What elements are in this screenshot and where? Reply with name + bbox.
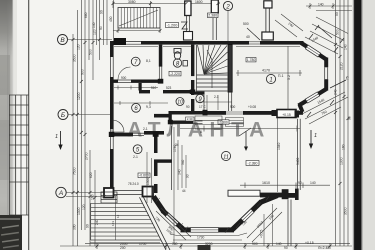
svg-text:2.300: 2.300 — [219, 120, 228, 124]
wall room5 to wing horizontal — [154, 159, 172, 162]
svg-text:1: 1 — [55, 134, 58, 140]
svg-text:340: 340 — [181, 159, 185, 165]
scanned left edge gray strip — [0, 0, 13, 250]
door lines room7/room6 — [118, 80, 131, 83]
parapet diagonal left window box — [165, 213, 178, 226]
svg-text:1610: 1610 — [262, 181, 270, 185]
room1 dim line horizontal — [236, 70, 302, 76]
svg-text:450: 450 — [109, 16, 113, 22]
svg-text:900: 900 — [230, 105, 236, 109]
corridor bottom wall — [172, 121, 194, 124]
door threshold blob to veranda — [277, 110, 296, 118]
label -1.200 — [166, 23, 179, 28]
top wall inner face lines — [114, 45, 300, 47]
door arc room7 — [118, 67, 131, 80]
svg-text:3500: 3500 — [73, 54, 77, 62]
svg-text:1600: 1600 — [195, 0, 203, 4]
svg-text:5.2: 5.2 — [287, 75, 291, 80]
svg-text:2.380: 2.380 — [208, 14, 217, 18]
svg-text:2-1: 2-1 — [143, 127, 148, 131]
corridor top wall — [169, 111, 205, 115]
room circle 10 — [176, 98, 184, 106]
svg-text:140: 140 — [276, 242, 282, 246]
wing south wall end block — [282, 189, 289, 199]
bay corner to bottom wall — [300, 105, 303, 113]
axis circle 2 top — [223, 1, 232, 44]
junction piers — [109, 79, 208, 137]
room circle 5 — [133, 145, 142, 159]
room6 dim hline — [114, 101, 168, 105]
porch column right — [143, 187, 154, 197]
svg-text:680: 680 — [84, 12, 88, 18]
svg-text:+0.15: +0.15 — [282, 113, 291, 117]
svg-text:17 C: 17 C — [199, 105, 206, 109]
right margin light strip — [361, 0, 375, 250]
tick slashes on dimension chains — [72, 2, 350, 248]
room circle 11 — [221, 151, 230, 160]
wall room6/room5 horizontal — [110, 131, 164, 136]
svg-text:12: 12 — [116, 214, 120, 218]
porch step block — [101, 192, 117, 203]
svg-text:900: 900 — [81, 69, 85, 75]
corridor door lines — [193, 121, 202, 123]
svg-text:10: 10 — [177, 100, 183, 106]
svg-text:160: 160 — [342, 144, 346, 150]
top dim texts — [128, 0, 250, 39]
corridor left wall stub — [154, 114, 170, 118]
svg-text:140: 140 — [92, 22, 96, 28]
sheet border vertical line left — [28, 0, 30, 250]
porch dim hline — [66, 195, 106, 198]
parapet right stub to wall — [260, 196, 278, 203]
veranda edge double line right — [297, 119, 300, 190]
window in upper diagonal — [305, 45, 320, 57]
svg-text:3500: 3500 — [344, 207, 348, 215]
stair winders fan — [198, 45, 228, 74]
svg-text:1730: 1730 — [197, 236, 205, 240]
stair stringer dark — [228, 45, 232, 93]
svg-text:120: 120 — [82, 204, 86, 210]
svg-text:1200: 1200 — [77, 92, 81, 100]
section mark 1 right — [309, 130, 317, 149]
wall bottom of room 1 — [204, 111, 303, 115]
svg-text:300: 300 — [73, 224, 77, 230]
door sill line room1 exit — [226, 112, 243, 114]
svg-text:90: 90 — [86, 224, 90, 228]
extra top-left band texts — [77, 10, 113, 50]
small marks top right of stairs — [247, 26, 346, 88]
svg-text:120: 120 — [93, 29, 97, 35]
parapet hatch marks — [156, 197, 269, 234]
svg-text:75: 75 — [346, 76, 350, 80]
porch column left — [104, 188, 114, 198]
toilet fixture — [174, 49, 181, 60]
interior small texts — [121, 76, 256, 193]
svg-text:П-1: П-1 — [278, 74, 284, 78]
room circle 9 — [196, 94, 204, 103]
wing south wall window part — [228, 190, 260, 196]
stair dimension below — [113, 28, 162, 33]
section Z mark top — [181, 22, 188, 29]
svg-text:1300: 1300 — [340, 157, 344, 165]
svg-text:140: 140 — [318, 3, 324, 7]
room circle 8 wc — [173, 59, 181, 68]
right heavy black fold bar — [354, 0, 362, 250]
svg-text:140: 140 — [344, 44, 348, 50]
wing south wall dark part — [260, 193, 282, 198]
room circle 7 — [131, 57, 151, 66]
bottom dim texts — [120, 241, 329, 250]
svg-text:Θ=2.48: Θ=2.48 — [318, 246, 329, 250]
svg-text:9,3: 9,3 — [146, 105, 151, 109]
wall room5 right vertical — [154, 136, 158, 193]
svg-text:90: 90 — [186, 105, 190, 109]
left dimension chain verticals — [73, 0, 114, 246]
label 2.380 top — [208, 13, 219, 18]
window in top wall — [116, 42, 141, 45]
veranda lower double line — [288, 200, 291, 247]
parapet left upper stub — [154, 197, 165, 213]
svg-text:2: 2 — [225, 4, 230, 10]
svg-text:44: 44 — [182, 189, 186, 193]
svg-text:-2.220: -2.220 — [170, 72, 180, 76]
svg-text:1300: 1300 — [77, 207, 81, 215]
wing dim line — [180, 126, 300, 132]
stair left edge line — [196, 45, 198, 92]
bay right wall — [324, 58, 328, 91]
svg-text:1: 1 — [314, 133, 317, 139]
svg-text:1: 1 — [269, 77, 272, 83]
diag dims lower left terrace — [156, 208, 282, 242]
room circle 6 — [132, 103, 151, 112]
svg-text:340: 340 — [178, 169, 182, 175]
stringer continuation thin — [229, 92, 232, 111]
door line room6/room5 — [133, 133, 144, 135]
dark stamp bar bottom-left — [0, 215, 22, 250]
stair straight treads — [197, 75, 228, 91]
svg-text:500: 500 — [243, 22, 249, 26]
svg-text:78 24.0: 78 24.0 — [128, 182, 139, 186]
svg-text:620: 620 — [89, 172, 93, 178]
stair up arrow line — [207, 50, 212, 88]
axis circle A — [56, 187, 106, 197]
svg-text:А: А — [58, 190, 63, 197]
slash ticks on diagonals — [307, 25, 344, 117]
svg-text:1.780: 1.780 — [247, 58, 256, 62]
stair flight top-left — [118, 8, 160, 29]
wing south wall corner vertical — [295, 189, 299, 201]
steps down to wing — [226, 118, 244, 127]
door gap lines room7/wc — [159, 67, 162, 80]
label -2.380 lower right — [246, 161, 259, 166]
window in left wall lower — [111, 129, 114, 149]
wall between room7 and wc — [159, 45, 163, 67]
parapet diagonal left dark band — [163, 211, 184, 230]
leader mark near label — [239, 128, 251, 151]
wing left dim vline — [174, 127, 178, 245]
svg-text:500: 500 — [336, 29, 340, 35]
window in bay right wall — [325, 67, 328, 79]
door swing arc room6 — [112, 120, 124, 132]
hall boundary line — [203, 95, 205, 111]
top dimension line — [113, 1, 220, 8]
svg-text:90: 90 — [100, 10, 104, 14]
upper right rotated texts — [287, 22, 349, 150]
parapet rotated dim texts — [154, 216, 247, 240]
window in lower diagonal — [305, 92, 319, 103]
room5 rotated texts — [181, 159, 190, 178]
diag dim texts upper right — [317, 98, 328, 116]
axis circle B — [58, 110, 112, 120]
wall left exterior — [110, 41, 114, 191]
room1 vertical dim — [287, 46, 289, 110]
left chain texts — [73, 26, 103, 225]
wall wc/room6 horizontal — [139, 90, 192, 93]
upper right extra diagonals — [275, 14, 348, 41]
svg-text:900: 900 — [121, 76, 127, 80]
steps rotated tick texts — [111, 214, 120, 226]
top right corner texts — [318, 3, 339, 17]
svg-text:АТЛАНТА: АТЛАНТА — [127, 119, 271, 142]
sink fixture — [183, 61, 188, 67]
svg-text:4170: 4170 — [262, 69, 270, 73]
svg-text:120: 120 — [77, 44, 81, 50]
terrace step diagonal edge — [140, 197, 171, 250]
bay diagonal wall upper-right — [301, 43, 326, 59]
corridor left wall vertical — [169, 111, 172, 124]
svg-text:8,1: 8,1 — [146, 59, 151, 63]
svg-text:-2.380: -2.380 — [248, 162, 258, 166]
wall top exterior — [110, 41, 304, 45]
svg-text:2120: 2120 — [340, 62, 344, 70]
stair arrow diagonal — [119, 10, 158, 26]
left title table vertical lines — [10, 95, 27, 215]
bottom dark stamp box — [198, 245, 211, 250]
svg-text:2-1: 2-1 — [133, 155, 138, 159]
svg-text:510: 510 — [151, 86, 157, 90]
svg-text:В: В — [60, 37, 65, 44]
left title table horizontal lines — [9, 95, 29, 215]
room circle 1 — [266, 74, 283, 84]
parapet bottom dark band — [181, 227, 235, 232]
label small corridor — [186, 117, 195, 121]
svg-text:-0.600: -0.600 — [139, 174, 149, 178]
wall room7/room6 horizontal — [110, 80, 159, 83]
svg-text:240: 240 — [95, 219, 99, 225]
diag dim texts lower — [167, 214, 274, 232]
steps crossing dim vline — [115, 196, 117, 240]
svg-text:1500: 1500 — [146, 178, 150, 185]
svg-text:90: 90 — [335, 12, 339, 16]
svg-text:240: 240 — [334, 89, 338, 95]
corner pier top-left black — [114, 38, 127, 45]
window in left wall upper — [111, 57, 114, 77]
svg-text:Б: Б — [61, 112, 65, 119]
diag dims upper right — [302, 92, 348, 124]
svg-text:+0.15: +0.15 — [305, 241, 314, 245]
svg-text:90: 90 — [186, 174, 190, 178]
top wall door sill lines — [249, 42, 260, 44]
svg-text:730: 730 — [172, 242, 178, 246]
stair bottom wall segment — [195, 92, 205, 95]
svg-text:90: 90 — [284, 246, 288, 250]
axis circle V — [58, 35, 113, 45]
parapet bottom window box — [191, 228, 219, 233]
bottom extra texts — [120, 242, 288, 250]
svg-text:40: 40 — [246, 35, 250, 39]
parapet diagonal right window box — [241, 209, 254, 222]
dim vline at parapet right — [264, 204, 273, 246]
svg-text:7500: 7500 — [73, 167, 77, 175]
svg-text:90: 90 — [298, 181, 302, 185]
svg-text:3080: 3080 — [128, 0, 136, 4]
svg-text:3400: 3400 — [296, 157, 300, 165]
platform below stairhall door — [195, 116, 222, 129]
svg-text:90: 90 — [99, 26, 103, 30]
svg-text:2.30: 2.30 — [187, 117, 193, 121]
svg-text:11: 11 — [223, 154, 229, 160]
svg-text:900: 900 — [252, 242, 258, 246]
bottom dimension line — [60, 243, 352, 249]
svg-text:1780: 1780 — [173, 144, 177, 152]
steps landing hline — [90, 242, 160, 244]
room5 extra dim marks — [147, 145, 186, 203]
bay diagonal wall lower-right — [299, 89, 327, 105]
stair hall lower dims — [196, 95, 232, 110]
svg-text:523: 523 — [166, 86, 172, 90]
section mark 1 left — [55, 131, 63, 150]
svg-text:1700: 1700 — [139, 242, 147, 246]
chimney shaft 1 — [184, 1, 193, 40]
svg-text:500: 500 — [89, 49, 93, 55]
wall connector room6 — [139, 83, 142, 91]
chimney shaft 3 — [262, 1, 273, 40]
svg-text:-1.200: -1.200 — [167, 24, 178, 28]
label corridor — [218, 120, 229, 125]
diag dims top bay — [305, 31, 343, 54]
wing dim rotated texts — [173, 142, 300, 175]
label 2.380 room1 — [246, 58, 256, 63]
wing dim line lower — [240, 183, 330, 189]
wing south wall right segment — [289, 193, 296, 198]
top right corner dim marks — [306, 3, 352, 11]
right dimension chain verticals — [336, 0, 349, 246]
svg-text:+0.08: +0.08 — [248, 105, 256, 109]
room7 dim line under wall — [114, 86, 158, 90]
svg-text:123: 123 — [111, 221, 115, 226]
extra left band texts lower — [73, 172, 94, 230]
threshold side blocks — [272, 110, 277, 116]
steps below parapet — [170, 233, 247, 240]
parapet diagonal right dark band — [233, 202, 262, 230]
chimney shaft 2 — [211, 0, 218, 40]
porch lintel lines — [114, 191, 143, 195]
wall wc/stairhall vertical — [191, 45, 194, 112]
wing left wall double line — [171, 126, 173, 190]
right chain texts — [336, 29, 352, 215]
svg-text:1540: 1540 — [277, 142, 281, 150]
label room5 — [138, 173, 150, 178]
svg-text:140: 140 — [310, 181, 316, 185]
svg-text:200: 200 — [120, 246, 126, 250]
label -2.220 wc — [169, 71, 181, 76]
dim vline below threshold — [277, 118, 279, 192]
terrace steps — [91, 203, 161, 240]
svg-text:2700: 2700 — [84, 152, 88, 160]
